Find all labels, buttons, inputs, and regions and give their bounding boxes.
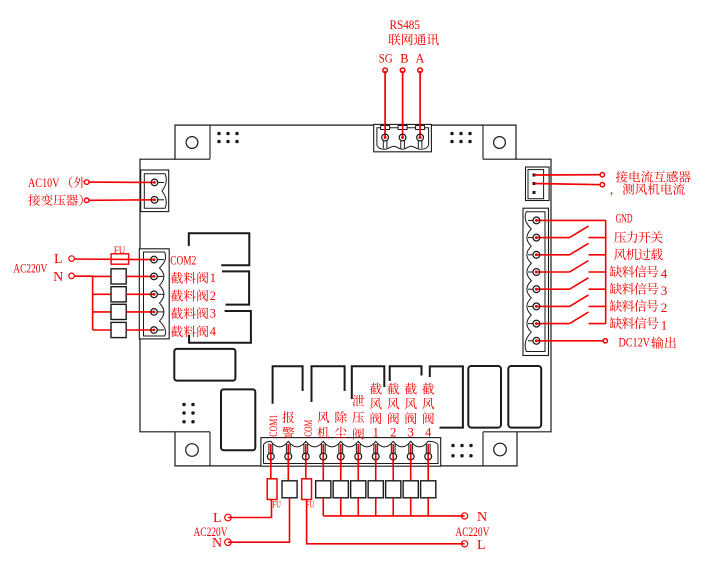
terminal	[600, 173, 604, 177]
relay K4 outline	[273, 366, 303, 403]
valve label	[171, 290, 208, 302]
mounting hole top-right	[494, 137, 506, 149]
J6 pin slot	[268, 444, 270, 454]
svg-text:N: N	[477, 510, 487, 525]
J6 pin wire	[392, 444, 394, 466]
N wire	[228, 498, 290, 542]
dot grid bottom-right	[451, 444, 455, 448]
mounting hole top-left	[186, 137, 198, 149]
switch fixed wire	[589, 271, 606, 273]
COM wire to right L	[307, 500, 465, 544]
svg-text:L: L	[54, 252, 63, 267]
J6 pin slot	[338, 444, 340, 454]
wire to pin	[126, 311, 154, 313]
load box	[403, 481, 418, 498]
N wire to bus	[74, 275, 92, 277]
svg-text:2: 2	[661, 300, 668, 315]
J6 screw pin	[320, 453, 327, 460]
load box (valve coil)	[111, 287, 126, 302]
J5 screw pin	[533, 217, 540, 224]
signal label	[610, 265, 659, 277]
wire pin3 to fuse2	[305, 458, 307, 479]
J6 pin wire	[427, 444, 429, 466]
svg-text:4: 4	[661, 266, 668, 281]
wire pin9 to load	[410, 458, 412, 481]
svg-text:SG: SG	[379, 52, 393, 66]
svg-text:4: 4	[210, 325, 217, 339]
switch contact wire	[536, 237, 569, 239]
L terminal	[69, 256, 75, 262]
J6 screw pin	[302, 453, 309, 460]
svg-text:L: L	[213, 511, 222, 526]
switch blade	[570, 312, 589, 324]
svg-text:AC220V: AC220V	[194, 525, 228, 539]
branch wire	[93, 293, 111, 295]
dot grid top-left	[217, 132, 221, 136]
relay K7 outline	[390, 366, 422, 381]
branch wire	[93, 311, 111, 313]
svg-text:AC10V: AC10V	[28, 176, 60, 190]
J1 screw pin	[417, 134, 424, 141]
switch contact wire	[536, 288, 569, 290]
GND wire	[536, 219, 605, 221]
N terminal	[69, 273, 75, 279]
connector J6 10-pin output	[261, 438, 441, 467]
wire pin8 to load	[392, 458, 394, 481]
svg-text:GND: GND	[616, 212, 633, 226]
J6 pin slot	[303, 444, 305, 454]
signal label	[614, 248, 663, 260]
svg-text:AC220V: AC220V	[13, 262, 47, 276]
J6 pin wire	[270, 444, 272, 466]
DC12V wire	[536, 340, 602, 342]
valve label	[171, 272, 208, 284]
J6 pin slot	[390, 444, 392, 454]
label 截风阀2	[387, 383, 399, 424]
wire pin2 to alarm load	[287, 458, 289, 481]
relay K3 outline	[189, 311, 251, 343]
J6 pin wire	[340, 444, 342, 466]
fuse FU2	[302, 479, 312, 500]
svg-text:A: A	[415, 52, 424, 66]
svg-text:COM1: COM1	[266, 415, 280, 437]
switch blade	[570, 295, 589, 307]
label 截风阀3	[405, 383, 417, 424]
signal label	[614, 231, 663, 243]
J6 screw pin	[337, 453, 344, 460]
wire pin4 to load	[322, 458, 324, 481]
svg-text:1: 1	[373, 426, 379, 440]
mounting hole bottom-right	[494, 443, 507, 456]
wire load to N bus	[340, 498, 342, 516]
N terminal	[225, 539, 232, 546]
RS485 wire terminal	[418, 68, 423, 73]
connector J2 AC10V 2-pin	[141, 170, 169, 212]
switch blade	[570, 243, 589, 255]
label 截风阀4	[422, 383, 434, 424]
wire	[534, 184, 602, 185]
component box U1	[174, 349, 235, 381]
J6 screw pin	[355, 453, 362, 460]
L wire	[228, 500, 272, 518]
relay K8 outline	[430, 366, 463, 427]
wire load to N bus	[392, 498, 394, 516]
svg-text:B: B	[400, 52, 408, 66]
connector J5 8-pin signal	[523, 208, 549, 355]
switch fixed wire	[589, 305, 606, 307]
J6 screw pin	[407, 453, 414, 460]
switch fixed wire	[589, 288, 606, 290]
wire to pin	[126, 275, 154, 277]
N bus vertical	[92, 276, 94, 330]
J4 pin	[533, 191, 536, 194]
alarm load box	[282, 481, 297, 498]
J6 screw pin	[267, 453, 274, 460]
terminal	[603, 339, 607, 343]
connector J4 current-transformer 3-pin	[526, 167, 550, 201]
svg-text:3: 3	[661, 283, 668, 298]
wire load to N bus	[322, 498, 324, 516]
load box (valve coil)	[111, 269, 126, 284]
J5 screw pin	[533, 251, 540, 258]
svg-text:2: 2	[210, 289, 216, 303]
wire	[419, 71, 421, 138]
relay K9 outline	[468, 366, 501, 428]
load box (valve coil)	[111, 304, 126, 319]
svg-text:L: L	[477, 538, 486, 553]
RS485 wire terminal	[383, 68, 388, 73]
J6 pin wire	[287, 444, 289, 466]
valve label	[171, 307, 208, 319]
J2 screw pin	[151, 179, 158, 186]
switch contact wire	[536, 323, 569, 325]
switch fixed wire	[589, 254, 606, 256]
wire L to fuse	[74, 258, 154, 261]
switch contact wire	[536, 254, 569, 256]
PCB board outline	[140, 125, 551, 466]
wire	[384, 71, 386, 138]
label 风机	[317, 411, 329, 438]
J6 pin slot	[373, 444, 375, 454]
wire pin7 to load	[375, 458, 377, 481]
J6 pin slot	[320, 444, 322, 454]
J6 pin wire	[305, 444, 307, 466]
wire	[534, 174, 602, 176]
svg-text:COM: COM	[301, 420, 315, 437]
J6 pin wire	[357, 444, 359, 466]
J3 screw pin	[151, 256, 158, 263]
J5 screw pin	[533, 234, 540, 241]
svg-text:FU: FU	[114, 245, 126, 256]
corner tab separators	[209, 125, 211, 159]
wire load to N bus	[427, 498, 429, 516]
J6 pin wire	[322, 444, 324, 466]
relay K10 outline	[508, 366, 541, 428]
J1 screw pin	[399, 134, 406, 141]
terminal	[600, 183, 604, 187]
J2 screw pin	[151, 197, 158, 204]
J3 screw pin	[151, 273, 158, 280]
load box	[316, 481, 331, 498]
fuse FU1	[267, 479, 277, 500]
J6 screw pin	[372, 453, 379, 460]
wire	[89, 199, 154, 202]
J6 pin slot	[285, 444, 287, 454]
J6 screw pin	[425, 453, 432, 460]
CT labels	[616, 171, 691, 183]
wire to pin	[126, 329, 154, 331]
label COM (rotated)	[301, 420, 315, 437]
J1 pin slot	[382, 140, 384, 148]
switch fixed wire	[589, 323, 606, 325]
GND bus	[605, 220, 607, 323]
signal label	[610, 317, 659, 329]
relay K5 outline	[312, 366, 345, 402]
J1 pin slot	[417, 140, 419, 148]
J3 screw pin	[151, 309, 158, 316]
switch contact wire	[536, 271, 569, 273]
switch blade	[570, 261, 589, 273]
svg-text:N: N	[212, 536, 222, 551]
J4 pin	[533, 182, 536, 185]
label COM1 (rotated)	[266, 415, 280, 437]
J5 screw pin	[533, 337, 540, 344]
switch fixed wire	[589, 237, 606, 239]
wire load to N bus	[357, 498, 359, 516]
switch contact wire	[536, 305, 569, 307]
J6 pin wire	[410, 444, 412, 466]
svg-text:3: 3	[210, 307, 216, 321]
connector J3 COM2 5-pin	[139, 249, 169, 339]
wire load to N bus	[410, 498, 412, 516]
load box	[368, 481, 383, 498]
load box	[333, 481, 348, 498]
L terminal	[225, 514, 232, 521]
J5 screw pin	[533, 303, 540, 310]
J3 screw pin	[151, 327, 158, 334]
svg-text:3: 3	[408, 426, 414, 440]
N terminal right	[462, 513, 468, 519]
load box	[386, 481, 401, 498]
branch wire	[93, 275, 111, 277]
wire load to N bus	[375, 498, 377, 516]
relay K6 outline	[352, 366, 385, 399]
dot grid top-middle	[450, 132, 454, 136]
wire	[89, 181, 154, 183]
svg-text:1: 1	[661, 317, 668, 332]
J6 screw pin	[285, 453, 292, 460]
svg-text:1: 1	[210, 271, 216, 285]
J5 screw pin	[533, 269, 540, 276]
J1 pin slot	[400, 140, 402, 148]
J6 pin slot	[408, 444, 410, 454]
J5 screw pin	[533, 320, 540, 327]
terminal	[84, 180, 89, 185]
AC10V labels	[28, 176, 85, 190]
svg-text:FU: FU	[272, 501, 281, 511]
terminal	[84, 198, 89, 203]
load box	[421, 481, 436, 498]
component box U2	[221, 389, 255, 450]
load box (valve coil)	[111, 322, 126, 337]
label 除尘	[335, 411, 347, 438]
svg-text:AC220V: AC220V	[455, 525, 489, 539]
J6 pin wire	[375, 444, 377, 466]
signal label	[610, 300, 659, 312]
svg-text:RS485: RS485	[390, 17, 421, 32]
J6 pin slot	[355, 444, 357, 454]
L terminal right	[462, 541, 468, 547]
J6 pin slot	[425, 444, 427, 454]
wire pin10 to load	[427, 458, 429, 481]
svg-text:2: 2	[390, 426, 396, 440]
dot grid bottom-left	[182, 403, 186, 407]
signal label	[610, 283, 659, 295]
svg-text:4: 4	[425, 426, 432, 440]
valve label	[171, 325, 208, 337]
svg-text:DC12V: DC12V	[619, 336, 651, 350]
load box	[351, 481, 366, 498]
wire pin1 to fuse	[270, 458, 272, 479]
label 报警	[282, 411, 294, 438]
label 截风阀1	[370, 383, 382, 424]
connector J1 RS485 3-pin	[374, 124, 432, 151]
svg-text:COM2: COM2	[170, 253, 196, 267]
J1 screw pin	[382, 134, 389, 141]
switch blade	[570, 278, 589, 290]
J6 screw pin	[390, 453, 397, 460]
relay K1 outline	[189, 233, 250, 265]
wire pin5 to load	[340, 458, 342, 481]
switch blade	[570, 226, 589, 238]
wire to pin	[126, 293, 154, 295]
J5 screw pin	[533, 286, 540, 293]
label 泄压阀	[352, 395, 364, 440]
mounting hole bottom-left	[186, 444, 199, 457]
wire	[402, 71, 404, 138]
J4 pin	[533, 174, 536, 177]
svg-text:N: N	[53, 270, 63, 285]
RS485 wire terminal	[400, 68, 405, 73]
branch wire	[93, 329, 111, 331]
relay K2 outline	[222, 271, 249, 304]
J3 screw pin	[151, 291, 158, 298]
wire pin6 to load	[357, 458, 359, 481]
N bus bottom	[323, 515, 464, 517]
